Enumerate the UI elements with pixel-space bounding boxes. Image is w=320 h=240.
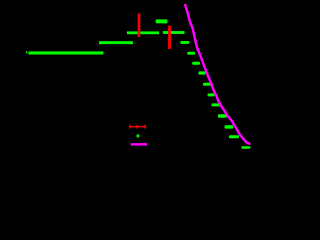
- prediction dash D6: [203, 83, 211, 86]
- error bar E1: [138, 13, 141, 37]
- legend error-bar glyph left tick: [129, 125, 130, 129]
- error bar E2 nub: [167, 38, 168, 39]
- prediction dash D10: [225, 125, 234, 128]
- prediction dash D4: [192, 62, 200, 65]
- prediction dash D5: [198, 71, 205, 74]
- prediction dash D3: [187, 52, 195, 55]
- prediction dash D7: [208, 93, 215, 96]
- prediction dash D11: [229, 135, 239, 138]
- theory curve: [185, 5, 249, 144]
- data bin bar L3b: [163, 31, 185, 34]
- prediction dash D12: [241, 146, 250, 149]
- legend error-bar glyph horizontal line: [129, 126, 146, 128]
- legend error-bar glyph center tick: [137, 125, 138, 129]
- legend error-bar glyph right tick: [145, 125, 146, 129]
- data bin bar L1: [29, 51, 104, 54]
- data bin bar L3a: [127, 31, 159, 34]
- error bar E2: [168, 26, 171, 49]
- prediction dash D9: [218, 114, 227, 117]
- legend green marker: [136, 134, 139, 138]
- prediction dash D1: [156, 19, 168, 23]
- prediction dash D8: [212, 103, 221, 106]
- prediction dash D2: [180, 41, 189, 44]
- data bin bar L2: [99, 41, 133, 44]
- legend curve sample line: [131, 143, 147, 146]
- data bin bar L1 left tick: [26, 51, 27, 53]
